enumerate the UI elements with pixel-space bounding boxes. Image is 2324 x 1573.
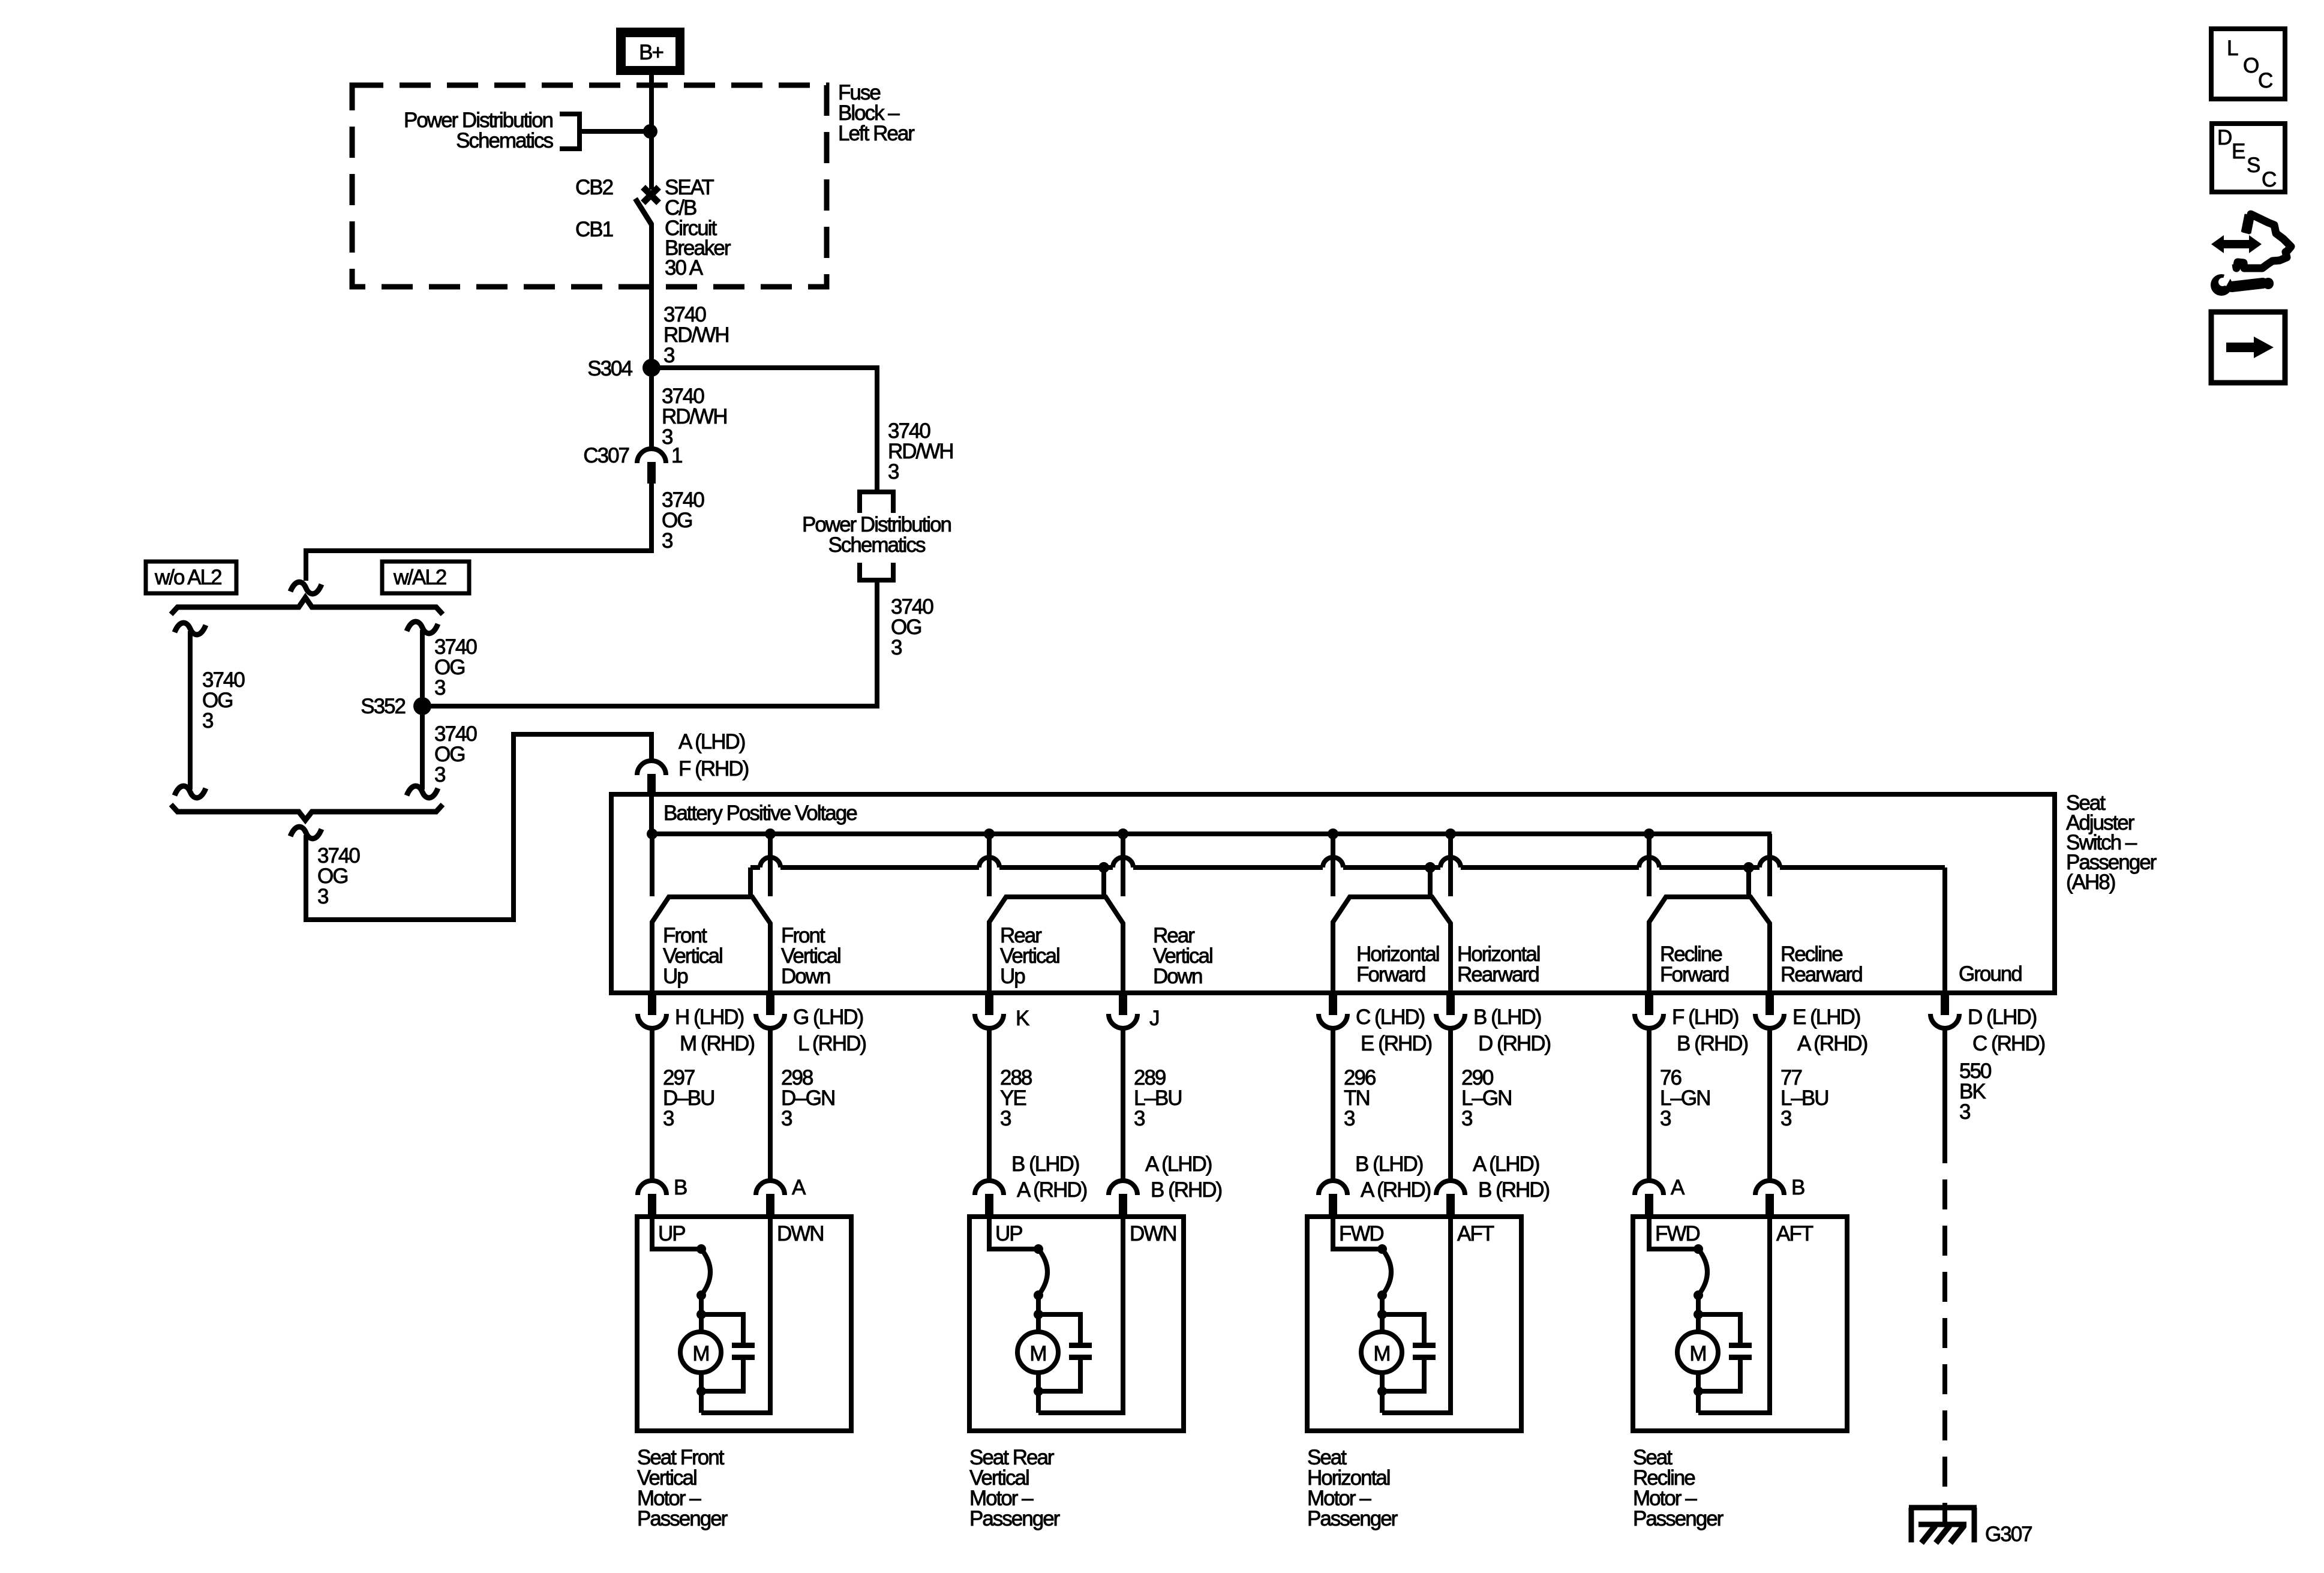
label box w/AL2 (382, 562, 469, 593)
wire 3740 OG 3 (306, 484, 651, 581)
svg-text:L (RHD): L (RHD) (798, 1032, 866, 1055)
svg-text:Forward: Forward (1660, 963, 1729, 986)
power distribution schematics reference (source) (404, 109, 580, 152)
svg-text:Battery Positive Voltage: Battery Positive Voltage (663, 801, 857, 825)
label Fuse Block - Left Rear (838, 81, 915, 145)
switch label Front Vertical Down (781, 924, 840, 988)
svg-text:M: M (1029, 1342, 1046, 1365)
label box w/o AL2 (146, 562, 236, 593)
svg-text:3: 3 (781, 1107, 792, 1130)
svg-text:Left Rear: Left Rear (838, 122, 915, 145)
switch rocker outline (recline) (1649, 897, 1770, 993)
seat rear vertical motor internal circuit (989, 1217, 1123, 1413)
svg-text:A: A (1671, 1176, 1685, 1199)
wire label 289 L–BU 3 (1134, 1066, 1182, 1130)
wire 290 L–GN 3 (1448, 1028, 1453, 1181)
svg-text:G (LHD): G (LHD) (793, 1005, 863, 1029)
svg-text:CB2: CB2 (575, 176, 613, 199)
switch label Rear Vertical Down (1153, 924, 1212, 988)
label SEAT C/B Circuit Breaker 30 A (665, 176, 731, 280)
svg-text:Rearward: Rearward (1457, 963, 1539, 986)
wire 550 BK 3 (dashed ground) (1942, 1028, 1947, 1503)
label Seat horizontal Motor - Passenger (1307, 1446, 1398, 1530)
svg-text:B (LHD): B (LHD) (1011, 1152, 1079, 1176)
svg-text:Rearward: Rearward (1780, 963, 1862, 986)
svg-text:30 A: 30 A (665, 256, 704, 280)
wire (S352 to reference) (422, 580, 877, 706)
svg-text:A: A (792, 1176, 806, 1199)
svg-text:DWN: DWN (1130, 1222, 1176, 1245)
svg-text:M: M (1373, 1342, 1389, 1365)
label Seat front vertical Motor - Passenger (637, 1446, 728, 1530)
connector pin (motor recline right) (1755, 1176, 1804, 1217)
wire 297 D–BU 3 (650, 1028, 654, 1181)
switch B+ contact feeds (recline) (1649, 834, 1770, 896)
svg-text:H (LHD): H (LHD) (675, 1005, 744, 1029)
connector pin (motor horizontal left) (1319, 1152, 1431, 1217)
ground contact feed (recline) (1743, 862, 1754, 894)
svg-text:F (RHD): F (RHD) (678, 757, 749, 781)
connector pin E (recline down output) (1755, 993, 1867, 1055)
svg-text:A (LHD): A (LHD) (1145, 1152, 1212, 1176)
icon DESC (2212, 124, 2285, 192)
svg-text:D (LHD): D (LHD) (1968, 1005, 2037, 1029)
wire label 3740 OG 3 (w/o AL2) (202, 668, 245, 733)
label Seat rear vertical Motor - Passenger (969, 1446, 1061, 1530)
label CB1 (575, 218, 613, 241)
svg-text:w/AL2: w/AL2 (393, 566, 446, 589)
svg-text:3: 3 (434, 763, 445, 786)
wire (S304 branch) (651, 368, 877, 491)
svg-text:Passenger: Passenger (637, 1507, 728, 1530)
wire (B+ feed) (649, 75, 654, 190)
wire label 288 YE 3 (1000, 1066, 1032, 1130)
svg-text:A (RHD): A (RHD) (1361, 1178, 1431, 1202)
wire 289 L–BU 3 (1121, 1028, 1125, 1181)
switch label Recline Rearward (1780, 942, 1862, 986)
wire (B+ feed to bus) (649, 794, 654, 834)
wire label 77 L–BU 3 (1780, 1066, 1828, 1130)
ground contact feed (front vertical) (748, 867, 753, 894)
junction node (horizontal up feed) (1328, 828, 1338, 839)
svg-text:B (RHD): B (RHD) (1677, 1032, 1748, 1055)
svg-text:CB1: CB1 (575, 218, 613, 241)
connector pin (motor rear vertical right) (1109, 1152, 1222, 1217)
svg-text:Forward: Forward (1356, 963, 1425, 986)
svg-text:3: 3 (434, 676, 445, 700)
svg-text:M: M (692, 1342, 708, 1365)
svg-text:Down: Down (1153, 965, 1202, 988)
switch label Front Vertical Up (663, 924, 722, 988)
switch B+ contact feeds (front vertical) (652, 834, 770, 896)
svg-text:3: 3 (317, 885, 328, 908)
svg-text:3: 3 (888, 460, 899, 484)
svg-text:D (RHD): D (RHD) (1478, 1032, 1550, 1055)
svg-text:Passenger: Passenger (1633, 1507, 1724, 1530)
switch rocker outline (front vertical) (652, 897, 770, 993)
svg-text:B+: B+ (639, 41, 663, 64)
svg-text:3: 3 (891, 636, 902, 659)
connector pin (motor recline left) (1635, 1176, 1685, 1217)
seat rear vertical motor housing (969, 1217, 1184, 1431)
wire label 296 TN 3 (1344, 1066, 1376, 1130)
connector pin B (horizontal down output) (1436, 993, 1550, 1055)
junction node (rear vertical down feed) (1118, 828, 1128, 839)
junction node (rear vertical up feed) (984, 828, 995, 839)
svg-text:G307: G307 (1985, 1523, 2032, 1546)
svg-text:(AH8): (AH8) (2066, 870, 2115, 894)
svg-text:S304: S304 (587, 357, 632, 380)
wire hops over ground bus (760, 857, 1780, 867)
svg-text:L: L (2227, 37, 2238, 60)
svg-text:C307: C307 (583, 444, 629, 467)
wire 76 L–GN 3 (1647, 1028, 1652, 1181)
svg-text:C: C (2262, 168, 2276, 191)
wire 3740 RD/WH 3 (649, 223, 654, 368)
svg-text:3: 3 (1134, 1107, 1145, 1130)
wire label 3740 OG 3 (bottom) (317, 844, 360, 908)
power terminal B+ (616, 28, 684, 75)
switch label Horizontal Forward (1356, 942, 1439, 986)
svg-text:C (RHD): C (RHD) (1972, 1032, 2044, 1055)
svg-text:M (RHD): M (RHD) (680, 1032, 754, 1055)
switch rocker outline (rear vertical) (989, 897, 1123, 993)
wire 298 D–GN 3 (768, 1028, 773, 1181)
connector pin A/F (switch feed) (637, 730, 749, 794)
connector pin F (recline up output) (1635, 993, 1748, 1055)
label CB2 (575, 176, 613, 199)
connector pin C (horizontal up output) (1319, 993, 1432, 1055)
svg-text:E (RHD): E (RHD) (1361, 1032, 1432, 1055)
junction node (front vertical up feed) (647, 828, 657, 839)
svg-text:O: O (2243, 54, 2259, 77)
connector pin J (rear vertical down output) (1109, 993, 1159, 1030)
svg-text:Passenger: Passenger (969, 1507, 1061, 1530)
junction node (recline up feed) (1644, 828, 1655, 839)
svg-text:A (RHD): A (RHD) (1017, 1178, 1087, 1202)
svg-text:3: 3 (663, 344, 674, 367)
label Battery Positive Voltage (663, 801, 857, 825)
svg-text:1: 1 (671, 444, 682, 467)
svg-text:B: B (674, 1176, 687, 1199)
connector pin K (rear vertical up output) (975, 993, 1029, 1030)
wire label 3740 OG 3 (below reference) (891, 595, 933, 659)
B+ bus bar (652, 831, 1771, 836)
svg-text:UP: UP (658, 1222, 685, 1245)
wire label 3740 RD/WH 3 (below S304) (662, 385, 727, 449)
wire label 76 L–GN 3 (1660, 1066, 1710, 1130)
option spread brace (top) (171, 598, 443, 614)
svg-text:3: 3 (1780, 1107, 1791, 1130)
svg-text:3: 3 (202, 709, 213, 733)
svg-text:S: S (2247, 154, 2260, 177)
icon LOC (2211, 29, 2285, 99)
switch B+ contact feeds (horizontal) (1333, 834, 1451, 896)
seat front vertical motor internal circuit (652, 1217, 770, 1413)
svg-text:B: B (1791, 1176, 1804, 1199)
svg-text:3: 3 (662, 529, 672, 553)
wire 288 YE 3 (987, 1028, 992, 1181)
svg-text:3: 3 (1660, 1107, 1671, 1130)
fuse block housing (dashed) (352, 85, 827, 287)
option wire w/AL2 (407, 622, 438, 798)
seat recline motor internal circuit (1649, 1217, 1770, 1413)
svg-text:B (RHD): B (RHD) (1478, 1178, 1550, 1202)
svg-text:E (LHD): E (LHD) (1792, 1005, 1860, 1029)
svg-text:FWD: FWD (1655, 1222, 1700, 1245)
svg-text:3: 3 (1959, 1100, 1970, 1124)
wire label 3740 OG 3 (w/AL2 lower) (434, 722, 477, 786)
svg-text:Down: Down (781, 965, 830, 988)
label FWD/AFT (1339, 1222, 1494, 1245)
switch B+ contact feeds (rear vertical) (989, 834, 1123, 896)
seat front vertical motor housing (637, 1217, 851, 1431)
junction node (front vertical down feed) (765, 828, 776, 839)
svg-text:C (LHD): C (LHD) (1356, 1005, 1425, 1029)
svg-text:Up: Up (663, 965, 687, 988)
svg-text:A (RHD): A (RHD) (1797, 1032, 1867, 1055)
junction node (horizontal down feed) (1445, 828, 1456, 839)
wire label 297 D–BU 3 (663, 1066, 714, 1130)
svg-text:Passenger: Passenger (1307, 1507, 1398, 1530)
connector pin (motor rear vertical left) (975, 1152, 1087, 1217)
svg-text:C: C (2258, 69, 2272, 92)
splice S304 (587, 357, 660, 380)
splice S352 (361, 695, 431, 718)
power distribution schematics reference (destination) (802, 492, 951, 580)
connector pin (motor front vertical left) (638, 1176, 687, 1217)
option wire w/o AL2 (175, 623, 206, 798)
switch label Recline Forward (1660, 942, 1729, 986)
svg-text:A (LHD): A (LHD) (1473, 1152, 1539, 1176)
svg-text:Up: Up (1000, 965, 1025, 988)
svg-text:AFT: AFT (1457, 1222, 1494, 1245)
svg-text:B (LHD): B (LHD) (1355, 1152, 1423, 1176)
switch label Rear Vertical Up (1000, 924, 1059, 988)
connector pin H (front vertical up output) (638, 993, 754, 1055)
connector pin D/C (ground) (1930, 993, 2044, 1055)
svg-text:D: D (2217, 126, 2232, 149)
svg-text:Ground: Ground (1959, 962, 2022, 986)
svg-text:3: 3 (1000, 1107, 1011, 1130)
wire label 3740 OG 3 (w/AL2 upper) (434, 635, 477, 700)
label Seat recline Motor - Passenger (1633, 1446, 1724, 1530)
ground bus drop (1942, 867, 1947, 993)
svg-text:K: K (1016, 1007, 1029, 1030)
option split squiggle (290, 582, 322, 594)
wire label 3740 RD/WH 3 (663, 303, 729, 367)
svg-text:UP: UP (995, 1222, 1022, 1245)
svg-text:J: J (1149, 1007, 1159, 1030)
svg-text:AFT: AFT (1776, 1222, 1813, 1245)
ground contact feed (horizontal) (1425, 862, 1436, 894)
label UP/DWN (658, 1222, 824, 1245)
svg-text:FWD: FWD (1339, 1222, 1383, 1245)
svg-text:B (LHD): B (LHD) (1473, 1005, 1541, 1029)
svg-text:E: E (2232, 140, 2245, 163)
connector pin (motor horizontal right) (1436, 1152, 1550, 1217)
svg-text:Schematics: Schematics (456, 129, 553, 152)
wire label 298 D–GN 3 (781, 1066, 834, 1130)
svg-text:w/o AL2: w/o AL2 (154, 566, 221, 589)
ground G307 (1909, 1503, 2032, 1546)
wire label 290 L–GN 3 (1461, 1066, 1511, 1130)
option merge brace (bottom) (171, 804, 443, 820)
icon vehicle diagnostics (2211, 214, 2291, 296)
svg-text:F (LHD): F (LHD) (1672, 1005, 1739, 1029)
wire label 550 BK 3 (1959, 1059, 1992, 1124)
connector C307 (583, 444, 682, 484)
wire 77 L–BU 3 (1767, 1028, 1772, 1181)
svg-text:M: M (1689, 1342, 1706, 1365)
circuit breaker SEAT C/B 30 A (635, 187, 659, 224)
connector pin (motor front vertical right) (756, 1176, 806, 1217)
svg-text:Schematics: Schematics (828, 533, 926, 557)
connector pin G (front vertical down output) (756, 993, 866, 1055)
seat recline motor housing (1633, 1217, 1847, 1431)
wire (649, 368, 654, 450)
junction node (643, 124, 657, 139)
seat horizontal motor internal circuit (1333, 1217, 1451, 1413)
ground bus bar (750, 865, 1945, 870)
icon forward arrow (2211, 312, 2285, 383)
switch label Horizontal Rearward (1457, 942, 1540, 986)
wire label 3740 RD/WH 3 (branch) (888, 419, 953, 484)
svg-text:S352: S352 (361, 695, 405, 718)
wire label 3740 OG 3 (below C307) (662, 488, 704, 553)
svg-text:3: 3 (663, 1107, 674, 1130)
wire (580, 129, 648, 134)
wire 3740 OG 3 (to switch) (306, 734, 651, 920)
label Ground (1959, 962, 2022, 986)
seat adjuster switch housing (611, 794, 2055, 993)
svg-text:DWN: DWN (777, 1222, 824, 1245)
svg-text:B (RHD): B (RHD) (1151, 1178, 1222, 1202)
option merge squiggle (290, 827, 322, 839)
wire 296 TN 3 (1331, 1028, 1335, 1181)
label UP/DWN (995, 1222, 1176, 1245)
svg-text:3: 3 (1461, 1107, 1472, 1130)
label FWD/AFT (1655, 1222, 1813, 1245)
label Seat Adjuster Switch - Passenger (AH8) (2066, 791, 2157, 894)
switch rocker outline (horizontal) (1333, 897, 1451, 993)
seat horizontal motor housing (1307, 1217, 1521, 1431)
svg-text:3: 3 (1344, 1107, 1355, 1130)
ground contact feed (rear vertical) (1098, 862, 1109, 894)
svg-text:A (LHD): A (LHD) (678, 730, 745, 754)
